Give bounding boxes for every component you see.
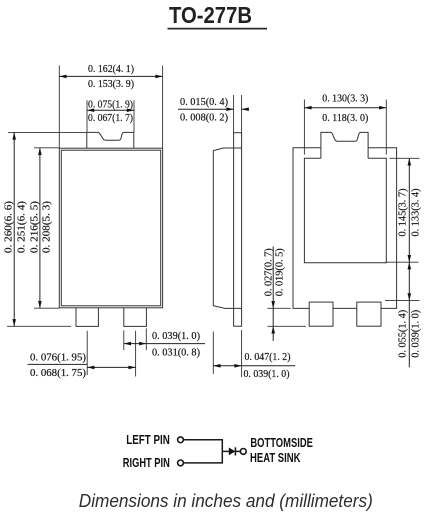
svg-text:0. 055(1. 4): 0. 055(1. 4) [397, 309, 408, 357]
dim line 0.260/0.251 vertical [12, 132, 16, 326]
back view tab with notch [321, 132, 368, 158]
front view top tab with notch [87, 132, 134, 148]
dim 0.130/0.118 extension lines [304, 100, 386, 155]
dim 0.015/0.008 dimension line with outside arrows [178, 107, 249, 111]
svg-text:BOTTOMSIDE: BOTTOMSIDE [250, 436, 313, 450]
front view body inner [61, 150, 160, 306]
svg-text:0. 208(5. 3): 0. 208(5. 3) [42, 200, 53, 253]
svg-text:Dimensions in inches and (mill: Dimensions in inches and (millimeters) [79, 490, 373, 511]
front view pin 2 [124, 308, 147, 327]
dim line 0.216/0.208 vertical [38, 148, 42, 308]
svg-text:0. 130(3. 3): 0. 130(3. 3) [322, 94, 368, 105]
svg-text:0. 251(6. 4): 0. 251(6. 4) [16, 200, 27, 253]
svg-text:0. 039(1. 0): 0. 039(1. 0) [152, 331, 200, 342]
svg-text:0. 068(1. 75): 0. 068(1. 75) [30, 368, 87, 379]
svg-text:LEFT PIN: LEFT PIN [126, 433, 170, 447]
svg-text:0. 118(3. 0): 0. 118(3. 0) [322, 113, 368, 124]
svg-text:HEAT SINK: HEAT SINK [250, 451, 301, 465]
svg-text:0. 031(0. 8): 0. 031(0. 8) [152, 347, 200, 358]
dim 0.027/0.019 extension lines [268, 308, 307, 326]
dim 0.047/0.039 extension lines [213, 330, 241, 377]
svg-text:0. 027(0. 7): 0. 027(0. 7) [264, 248, 275, 296]
legend terminal circle heat sink [240, 449, 246, 455]
svg-text:0. 047(1. 2): 0. 047(1. 2) [245, 352, 291, 363]
dim 0.015/0.008 extension lines [234, 95, 242, 133]
svg-text:0. 153(3. 9): 0. 153(3. 9) [88, 79, 134, 90]
title underline [168, 28, 268, 30]
dim 0.075/0.067 dimension line [87, 108, 134, 112]
svg-text:0. 015(0. 4): 0. 015(0. 4) [180, 97, 228, 108]
side view molded body [213, 148, 241, 308]
right dims extension lines [385, 158, 420, 300]
svg-text:0. 133(3. 4): 0. 133(3. 4) [410, 188, 421, 236]
svg-text:RIGHT PIN: RIGHT PIN [123, 456, 170, 470]
front view pin 1 [76, 308, 98, 327]
front view body outer [59, 148, 162, 308]
dim 0.130/0.118 dimension line [304, 106, 386, 110]
svg-text:0. 075(1. 9): 0. 075(1. 9) [88, 99, 133, 110]
svg-text:0. 067(1. 7): 0. 067(1. 7) [88, 113, 133, 124]
dim 0.162/0.153 extension lines [59, 66, 162, 149]
left dims extension lines [7, 132, 87, 326]
legend terminal circle right pin [178, 460, 184, 466]
svg-text:0. 216(5. 5): 0. 216(5. 5) [30, 200, 41, 253]
svg-text:0. 008(0. 2): 0. 008(0. 2) [180, 112, 228, 123]
svg-text:0. 260(6. 6): 0. 260(6. 6) [4, 200, 15, 253]
svg-text:0. 039(1. 0): 0. 039(1. 0) [410, 309, 421, 357]
svg-text:0. 162(4. 1): 0. 162(4. 1) [88, 64, 134, 75]
svg-text:0. 019(0. 5): 0. 019(0. 5) [274, 248, 285, 296]
svg-text:TO-277B: TO-277B [169, 2, 252, 28]
pin width dim extension lines [87, 328, 146, 376]
dim 0.075/0.067 extension lines [87, 100, 134, 132]
side view lead strip [234, 133, 242, 327]
dim line 0.076/0.068 pin pitch [28, 364, 136, 369]
svg-text:0. 039(1. 0): 0. 039(1. 0) [244, 369, 290, 380]
title TO-277B [169, 2, 252, 28]
back view exposed pad [304, 158, 386, 262]
svg-text:0. 145(3. 7): 0. 145(3. 7) [397, 188, 408, 236]
dim line 0.145+0.055 vertical [408, 158, 412, 367]
back view pin 1 [309, 302, 333, 326]
dim 0.162/0.153 dimension line [59, 75, 162, 79]
back view pin 2 [357, 302, 381, 326]
legend terminal circle left pin [178, 437, 184, 443]
dim 0.027/0.019 dimension line vertical [271, 247, 275, 342]
dim 0.047/0.039 dimension line [213, 364, 295, 368]
back view body outline [293, 148, 397, 309]
dim line 0.039/0.031 pin width [124, 342, 205, 346]
legend bus wire vertical [221, 439, 223, 464]
legend wire left pin [184, 439, 223, 441]
svg-text:0. 076(1. 95): 0. 076(1. 95) [30, 353, 87, 364]
legend diode symbol [222, 447, 240, 455]
legend wire right pin [184, 462, 223, 464]
